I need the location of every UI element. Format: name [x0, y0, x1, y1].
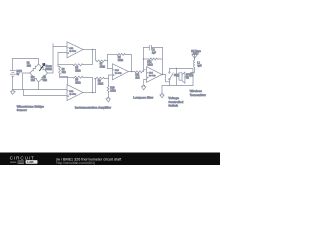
wire R7 to OA3 inverting node — [105, 60, 107, 62]
bridge R4 (bottom-right arm) — [39, 73, 48, 82]
wire OA1 inverting input to RG — [58, 53, 67, 67]
wire R5 left — [58, 64, 73, 66]
svg-text:9V: 9V — [17, 74, 20, 76]
svg-text:10kΩ: 10kΩ — [110, 90, 116, 92]
node OA4 out — [162, 74, 163, 75]
svg-text:ANT1: ANT1 — [193, 52, 200, 55]
svg-text:1kΩ: 1kΩ — [135, 78, 139, 80]
op-amp OA4 — [147, 67, 163, 83]
wire R12 leads — [144, 48, 163, 75]
wire OA2 output — [83, 92, 96, 94]
ground under OA4 — [142, 85, 146, 89]
svg-text:Sensor: Sensor — [17, 108, 28, 112]
wire OA3 output — [129, 71, 135, 73]
switch loop wires — [170, 69, 194, 86]
wire R10 top — [108, 79, 110, 98]
node OA1 feedback junction — [92, 49, 93, 50]
resistor R5 — [73, 64, 83, 73]
wire R8 to OA3 + node — [95, 78, 109, 80]
wire R9 left lead — [108, 54, 117, 56]
svg-text:R11: R11 — [135, 75, 140, 77]
resistor R7 — [96, 60, 105, 69]
wire OA1 out to R7 — [95, 50, 97, 61]
node OA2 feedback junction — [92, 92, 93, 93]
resistor R9 feedback — [117, 53, 125, 62]
wire OA3 + input — [109, 75, 113, 79]
ground under R10 — [106, 98, 110, 102]
thermistor arrow — [40, 64, 45, 71]
thermistor RT (top-right arm) — [39, 64, 53, 73]
svg-text:10kΩ: 10kΩ — [98, 84, 104, 86]
resistor R8 — [95, 77, 105, 86]
wire OA4 out to switch control — [166, 75, 170, 82]
wire RG bottom to OA2 input rail — [60, 75, 68, 90]
antenna ANT1 — [191, 50, 201, 58]
wire R11 to OA4 inverting node — [144, 48, 147, 72]
svg-text:10kΩ: 10kΩ — [118, 60, 124, 62]
switch SW1 — [169, 69, 171, 86]
wire bridge bottom corner down — [38, 82, 40, 90]
wire R6 left — [60, 77, 74, 79]
svg-text:op-amp: op-amp — [69, 93, 77, 95]
svg-text:Lowpass filter: Lowpass filter — [133, 96, 154, 100]
op-amp OA3 — [113, 64, 129, 80]
bridge R3 (bottom-left arm) — [30, 73, 39, 82]
wire R9 right to output — [125, 55, 131, 72]
wire bridge left corner to bottom rail — [23, 73, 30, 90]
wire bottom rail to ground arrow — [162, 86, 170, 92]
svg-text:R12: R12 — [147, 62, 152, 64]
resistor R12 feedback — [147, 58, 157, 67]
svg-text:100kΩ: 100kΩ — [45, 69, 52, 71]
svg-text:op-amp: op-amp — [69, 51, 77, 53]
wire OA4 + input to ground — [144, 79, 147, 85]
svg-text:Therm: Therm — [45, 65, 52, 68]
wire OA2 feedback up — [83, 78, 93, 93]
svg-text:LAB: LAB — [27, 160, 34, 164]
speaker SPKR1 — [177, 76, 180, 78]
battery BAT1 — [10, 59, 22, 90]
resistor R10 to ground — [107, 86, 116, 93]
svg-text:Transmitter: Transmitter — [190, 93, 207, 97]
svg-text:op-amp: op-amp — [149, 75, 157, 77]
resistor R11 — [135, 71, 144, 80]
svg-text:BAT1: BAT1 — [17, 70, 23, 73]
svg-text:http://circuitlab.com/c6b3j: http://circuitlab.com/c6b3j — [57, 161, 96, 165]
svg-text:1µF: 1µF — [152, 52, 157, 54]
svg-text:R10: R10 — [110, 87, 115, 89]
wire OA2 out to R8 — [95, 79, 97, 93]
CircuitLab logo — [10, 155, 38, 164]
svg-text:10kΩ: 10kΩ — [75, 70, 81, 72]
svg-text:1kΩ: 1kΩ — [27, 66, 31, 68]
svg-text:1kΩ: 1kΩ — [62, 72, 66, 74]
inductor L1 — [191, 58, 202, 76]
bottom rail wire A — [13, 89, 68, 91]
resistor R6 — [73, 76, 83, 85]
svg-text:1kΩ: 1kΩ — [31, 80, 35, 82]
svg-text:Switch: Switch — [168, 104, 178, 108]
op-amp OA2 — [67, 85, 83, 101]
wire OA1 output — [83, 49, 96, 51]
wire bridge right corner up to OA1 — [48, 44, 68, 73]
wire OA4 output — [162, 74, 166, 76]
svg-text:8Ω: 8Ω — [186, 78, 189, 80]
wire battery top to bridge — [13, 59, 39, 65]
svg-text:SPKR1: SPKR1 — [186, 75, 194, 77]
svg-text:10kΩ: 10kΩ — [75, 83, 81, 85]
op-amp OA1 — [67, 42, 83, 58]
svg-text:Instrumentation Amplifier: Instrumentation Amplifier — [75, 106, 112, 110]
ground G1 — [11, 90, 15, 94]
footer bar — [0, 153, 220, 166]
wheatstone bridge R1 (top-left arm) — [27, 63, 39, 73]
lower rail wire B — [24, 90, 68, 96]
capacitor C1 top — [144, 47, 163, 49]
resistor RG vertical — [59, 67, 66, 75]
svg-text:1kΩ: 1kΩ — [43, 80, 47, 82]
wire OA1 feedback down — [83, 50, 93, 65]
node switch loop junction — [176, 68, 177, 69]
node OA3 out junction — [131, 71, 132, 72]
wire OA3 inverting node vertical — [108, 55, 113, 69]
svg-text:4µH: 4µH — [197, 65, 202, 67]
svg-text:10kΩ: 10kΩ — [147, 65, 153, 67]
svg-text:op-amp: op-amp — [115, 73, 123, 75]
node R12 junctions — [143, 58, 144, 59]
svg-text:10kΩ: 10kΩ — [100, 66, 106, 68]
ground under switch rail — [160, 92, 164, 98]
